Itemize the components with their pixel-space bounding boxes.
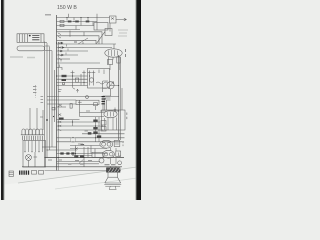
box coil pack top right — [94, 23, 108, 31]
wire mid rail y43 — [57, 43, 117, 45]
wire rail y147 — [42, 146, 57, 148]
switch contacts at bus — [58, 33, 62, 60]
wire vert x84 — [82, 71, 86, 86]
wire verts bottom mid — [91, 146, 95, 158]
box dial scale — [17, 46, 45, 51]
wire top rail 3 — [57, 25, 95, 27]
paper background — [0, 0, 141, 200]
resistor R13 — [80, 155, 84, 158]
wire rail y76 — [57, 75, 88, 77]
resistor R15 — [117, 57, 121, 63]
label C42 — [48, 160, 92, 164]
label m+ — [78, 143, 83, 145]
wire rail y82 — [57, 81, 88, 83]
wire vertical x97 — [96, 14, 98, 30]
wire switch vert C — [42, 110, 44, 130]
capacitor C10 — [52, 107, 55, 110]
page curl diagonal shadow 2 — [55, 178, 141, 190]
wire rail y119.5 — [57, 119, 80, 121]
wire vert x89.5 — [88, 71, 92, 86]
tube V1 envelope — [105, 49, 122, 57]
wire left feed 2 — [45, 46, 52, 51]
wire vertical x110 — [109, 23, 111, 32]
resistor R1 — [60, 21, 64, 23]
label W mid — [85, 130, 88, 132]
wire left bus a — [44, 42, 46, 167]
wire mid rail y63 — [57, 62, 101, 64]
wire rail y161.5 — [57, 161, 101, 163]
switch arrows on rails — [60, 42, 64, 56]
switch arm S1 diagonal — [97, 32, 106, 44]
wire mid rail y59 — [57, 58, 71, 60]
page curl light area bottom — [0, 167, 141, 201]
capacitor C11 — [88, 132, 92, 134]
wire top rail 1 — [57, 17, 110, 19]
pickup connector K — [110, 16, 117, 23]
svg-text:150 W B: 150 W B — [57, 5, 77, 11]
diode D1 cluster — [94, 103, 98, 111]
wire mid rail y35.8 staircase — [57, 36, 100, 44]
wire vert x72.5 low — [72, 120, 74, 126]
label right top text — [118, 30, 128, 36]
box output filter — [92, 152, 103, 157]
wire bus second vertical — [57, 42, 59, 171]
wire left bus d — [51, 51, 53, 147]
junction dots — [47, 17, 120, 158]
wire rail y104 — [47, 103, 76, 105]
wire vert x93.5 — [92, 71, 96, 86]
wire transformer to lamp — [29, 152, 36, 167]
left scan border — [0, 0, 1, 200]
wire rail y112.5 — [80, 112, 105, 114]
wire rail y148.5 — [70, 148, 107, 150]
wire stub y67.5 — [57, 68, 63, 71]
wire rail y130 — [57, 129, 104, 131]
wire rail y111 — [100, 110, 119, 112]
terminal blob cluster — [102, 97, 106, 104]
wire stub x70 — [69, 31, 71, 37]
resistor R10 — [66, 152, 69, 154]
box IF filter — [76, 100, 99, 104]
lamp La2 faint — [70, 137, 75, 142]
wire right links — [119, 153, 121, 157]
label +7.5V — [105, 164, 116, 166]
resistor R2 — [60, 24, 64, 26]
switch mark S2 — [58, 104, 62, 116]
transformer T1 box — [23, 141, 46, 168]
switch arm S3 — [75, 148, 83, 164]
wire rail y122 — [57, 121, 101, 123]
wire rail y163.8 — [57, 163, 100, 165]
wire rail y107 — [57, 106, 67, 108]
tube V3 box — [102, 110, 126, 130]
capacitor C3 — [86, 21, 90, 23]
resistor R3 — [108, 60, 113, 65]
wire rail y142 — [57, 141, 125, 143]
resistor R4 — [62, 75, 67, 77]
wire left bus b — [46, 43, 48, 158]
wire rail y157.5 main — [45, 157, 125, 159]
switch arm S1b diagonal — [78, 38, 88, 44]
wire top rail 4 — [57, 29, 81, 31]
wire rail y150 — [47, 149, 77, 151]
capacitor C2 — [75, 21, 79, 23]
connector left — [9, 171, 13, 176]
potentiometer P1 — [103, 81, 114, 96]
coil bank L2 — [21, 129, 44, 140]
wire vert x81 — [80, 74, 82, 86]
label top small text — [45, 14, 51, 16]
capacitor C4 mark — [62, 82, 64, 84]
wire rail y79 — [57, 78, 88, 80]
label mm — [86, 110, 90, 112]
wire verticals bottom center — [76, 146, 89, 167]
tube V2 mark — [86, 96, 89, 99]
wire rail y138 — [57, 137, 125, 139]
tube V5 box — [88, 69, 110, 89]
right scan border — [136, 0, 137, 200]
capacitor C9 circle — [118, 161, 122, 165]
wire right bus double — [119, 55, 121, 140]
wire vert x72.5 — [71, 71, 75, 87]
wire rail y153.5 — [57, 153, 108, 155]
switch contacts bus lower — [58, 121, 61, 131]
wire mid rail y40.3 staircase — [57, 40, 97, 44]
wire mid rail y47.5 — [57, 47, 113, 49]
smudge mark — [10, 56, 35, 59]
resistor R12 — [74, 155, 78, 158]
label dots below rails — [59, 90, 62, 92]
page curl diagonal shadow — [18, 167, 141, 184]
resistor R11 — [71, 152, 74, 154]
label lamp — [34, 156, 38, 158]
loudspeaker LS — [104, 172, 121, 189]
wire top rail 2 — [57, 21, 98, 23]
resistor R6 — [101, 121, 106, 126]
wire vert x114 — [113, 44, 115, 49]
capacitor C7 circle — [99, 158, 104, 163]
wire left bus e — [53, 70, 55, 122]
lamp La1 — [26, 155, 32, 161]
fuse box 2 — [39, 171, 44, 175]
wire link verticals top band — [67, 18, 93, 36]
terminal dash — [81, 144, 85, 146]
resistor R7 — [101, 127, 106, 132]
coil pack L1 striped box — [17, 34, 44, 43]
junction blob x47 — [46, 119, 48, 121]
wire rail y96.5 — [47, 96, 119, 98]
wire hook x72.5 — [73, 86, 76, 89]
connector block X1 — [114, 141, 120, 147]
tick marks between rails — [60, 45, 69, 68]
label E right — [126, 113, 128, 120]
capacitor chain C6 — [93, 117, 101, 142]
wire vert x79.5 — [79, 100, 81, 117]
wire tube V1 pins — [109, 57, 120, 71]
wire rail y134 — [82, 133, 125, 135]
wire rail y170.5 — [45, 170, 122, 172]
wire mid rail y31.8 staircase — [57, 32, 103, 44]
coil box small — [105, 29, 112, 36]
wire rail y116.5 — [80, 116, 105, 118]
arrow output — [116, 18, 127, 21]
junction dot — [53, 116, 54, 117]
wire rail y166.8 main — [22, 166, 122, 168]
wire left feed 1 — [44, 41, 47, 43]
magnet bar hatched — [107, 168, 121, 172]
arrow down mark — [114, 108, 116, 112]
wire switch vert B — [36, 108, 38, 130]
wire switch vert A — [29, 108, 31, 130]
terminal strip dark — [20, 171, 29, 175]
capacitor C1 — [68, 21, 72, 23]
wire mid rail y51 — [57, 50, 89, 52]
wire speaker leads — [111, 148, 117, 168]
wire rail y155.5 — [72, 155, 92, 157]
resistor R14 — [59, 118, 64, 120]
capacitor C5 — [76, 78, 79, 82]
wire rail y85 — [57, 85, 119, 87]
wire left bus c — [49, 47, 51, 151]
capacitor C8 — [70, 104, 72, 109]
resistor R9 — [60, 152, 63, 154]
wire nested corners — [103, 81, 122, 110]
fuse box 1 — [32, 171, 37, 175]
arrow up mark — [77, 89, 79, 92]
wire mid rail y55 — [57, 54, 79, 56]
label M — [74, 41, 77, 43]
label 2x vertical — [125, 49, 127, 57]
wire rail y126 — [57, 125, 104, 127]
label pin 1 — [122, 142, 124, 147]
tube V4 double triode — [100, 140, 113, 148]
label text col left — [33, 87, 36, 93]
label text col x40 — [40, 97, 43, 118]
tube V6 double triode — [103, 150, 115, 158]
node bus main vertical — [56, 15, 58, 171]
wire rail y100 — [47, 99, 76, 101]
wire R3 down — [109, 65, 111, 71]
wire rail y145.5 — [70, 145, 100, 147]
wire dashed vert — [35, 85, 37, 98]
resistor R5 — [62, 79, 67, 81]
connector block X3 — [116, 151, 121, 156]
wire top stub — [68, 14, 70, 18]
